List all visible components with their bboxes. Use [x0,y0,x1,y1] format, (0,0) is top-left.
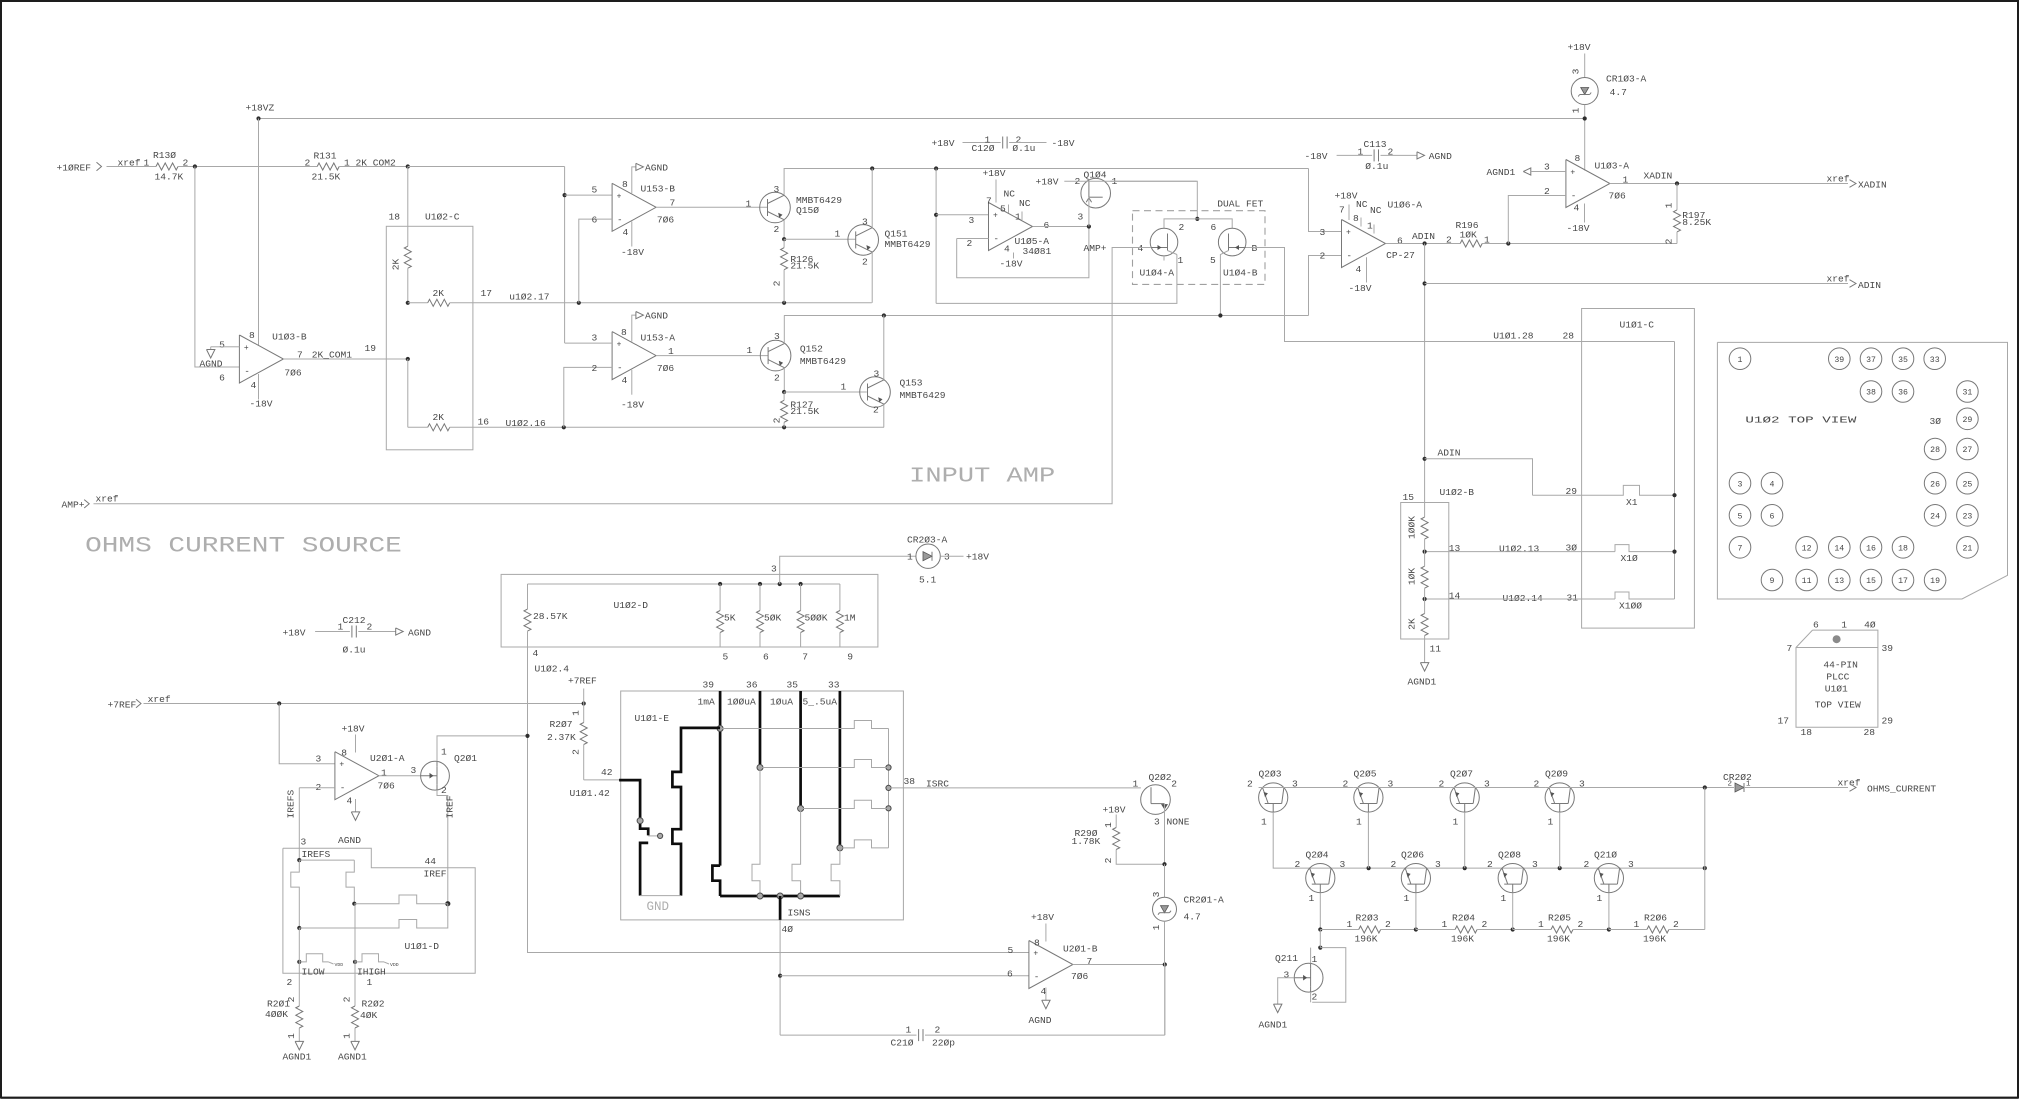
resistor R201 400K [265,973,303,1041]
svg-text:5: 5 [1000,204,1006,215]
svg-text:U1Ø6-A: U1Ø6-A [1388,200,1423,211]
svg-text:AGND: AGND [338,835,361,846]
wire R207 to U101-E pin 42 [570,767,621,799]
svg-text:U1Ø1-C: U1Ø1-C [1620,320,1655,331]
node u102.17 / U153-B pin6 [577,301,581,305]
svg-text:X1ØØ: X1ØØ [1619,601,1642,612]
wire bold 1mA rail [719,691,722,866]
svg-text:4: 4 [1574,203,1580,214]
svg-text:U1Ø1.42: U1Ø1.42 [570,788,611,799]
svg-text:ADIN: ADIN [1438,447,1461,458]
svg-text:9: 9 [847,651,853,662]
svg-text:MMBT6429: MMBT6429 [885,239,931,250]
wire collector vertical right [888,729,890,848]
svg-text:1: 1 [1404,893,1410,904]
op-amp U106-A CP-27 [1320,199,1423,275]
svg-text:1: 1 [1367,221,1373,232]
node bus 500K tap [799,582,803,586]
wire 100uA lower with notch [752,768,760,897]
svg-text:IREFS: IREFS [302,849,331,860]
svg-text:xref: xref [1827,173,1850,184]
wire U153-B output to Q150 base [656,199,768,210]
svg-text:11: 11 [1802,577,1812,586]
diode CR201-A 4.7 zener [1151,864,1224,964]
svg-text:6: 6 [1044,220,1050,231]
svg-text:CR1Ø3-A: CR1Ø3-A [1606,74,1647,85]
node IREF entry [445,901,450,906]
svg-text:3: 3 [1628,859,1634,870]
svg-text:3: 3 [1284,970,1290,981]
node IREFS inside U101-D [297,858,301,862]
svg-text:7: 7 [1738,545,1743,554]
svg-text:1M: 1M [844,613,856,624]
svg-text:4: 4 [623,227,629,238]
svg-text:8: 8 [621,327,627,338]
wire U201-B output [1073,964,1165,966]
wire node down to U103-B pin 6 [195,167,240,368]
svg-text:1: 1 [1664,202,1675,208]
wire CR202 to OHMS_CURRENT connector [1745,787,1848,789]
svg-text:U1Ø2.14: U1Ø2.14 [1503,593,1544,604]
node 100uA row [757,765,763,771]
wire 1mA row to bump cell [720,721,888,729]
resistor R126 21.5K [772,239,820,303]
resistor network U102-B box [1401,487,1475,639]
svg-text:196K: 196K [1355,933,1378,944]
wire Q201 source IREF down [437,790,456,904]
svg-text:2: 2 [367,622,373,633]
svg-text:2: 2 [1584,859,1590,870]
node R196 / U103-A feedback [1506,241,1510,245]
resistor 2K in U102-B [1407,599,1429,663]
svg-text:U153-A: U153-A [641,333,676,344]
svg-text:+18V: +18V [1568,42,1591,53]
transistor Q208 [1487,850,1538,905]
svg-text:1mA: 1mA [698,697,716,708]
svg-text:1: 1 [1538,919,1544,930]
node Q209 base junction [1558,866,1562,870]
node row2 right [1703,866,1707,870]
resistor 28.57K [524,584,568,647]
svg-text:1: 1 [906,1025,912,1036]
wire rail down to U105-A pin 3 and U104-A return [935,169,937,304]
svg-text:3: 3 [1151,891,1162,897]
wire U103-B pin 5 stub [227,346,240,348]
svg-text:4ØK: 4ØK [360,1010,378,1021]
svg-text:+18V: +18V [983,168,1006,179]
svg-text:2: 2 [1482,919,1488,930]
svg-text:5: 5 [1008,945,1014,956]
svg-text:28: 28 [1930,446,1940,455]
wire bold ISNS drop [779,896,782,920]
svg-text:Q151: Q151 [885,229,908,240]
node XADIN / R197 [1675,181,1679,185]
svg-text:2: 2 [1320,251,1326,262]
transistor Q201 JFET [421,747,478,797]
svg-text:1: 1 [907,552,913,563]
svg-text:3: 3 [1532,859,1538,870]
svg-text:1: 1 [381,768,387,779]
wire 2K to pin17 node [407,268,409,303]
resistor 100K in U102-B [1407,516,1429,552]
svg-text:NC: NC [1370,205,1382,216]
svg-text:MMBT6429: MMBT6429 [900,390,946,401]
node 2K_COM1 [406,357,410,361]
svg-text:XADIN: XADIN [1644,171,1673,182]
svg-text:2: 2 [1247,779,1253,790]
wire 10uA lower with notch [792,809,801,897]
wire Q208 base to R row [1512,893,1514,930]
svg-text:TOP VIEW: TOP VIEW [1815,700,1861,711]
node U104-B drain [1218,313,1222,317]
net IREFS vertical [286,788,300,860]
node R207 top [582,701,586,705]
label +7REF at R207 [568,676,597,704]
node Q152 emitter / Q153 base / R127 [782,390,786,394]
svg-text:7Ø6: 7Ø6 [1071,971,1089,982]
svg-text:7Ø6: 7Ø6 [378,781,396,792]
svg-text:11: 11 [1430,644,1442,655]
node U102-C pin 17 tap [406,301,410,305]
svg-text:7Ø6: 7Ø6 [657,215,675,226]
node Q207 base junction [1463,866,1467,870]
wire Q207 to Q209 [1450,787,1545,789]
svg-text:4: 4 [533,648,539,659]
svg-text:+1ØREF: +1ØREF [57,162,92,173]
svg-text:2K: 2K [391,259,402,271]
svg-text:XADIN: XADIN [1858,179,1887,190]
svg-text:1: 1 [1309,893,1315,904]
svg-text:+: + [1033,950,1038,959]
wire Q153 emitter to u102.16 [883,404,885,427]
op-amp U153-B [612,179,675,238]
svg-text:2K: 2K [1407,618,1418,630]
svg-text:NC: NC [1356,199,1368,210]
transistor Q152 MMBT6429 [760,331,846,384]
node OHMS row right [1703,785,1707,789]
op-amp U103-B [219,330,376,391]
connector +10REF [57,158,141,174]
svg-text:DUAL FET: DUAL FET [1217,199,1263,210]
svg-text:2: 2 [1728,781,1733,789]
svg-text:AMP+: AMP+ [1083,243,1106,254]
node 10uA bottom [798,893,804,899]
svg-text:28.57K: 28.57K [533,611,568,622]
svg-text:1ØØuA: 1ØØuA [727,697,756,708]
svg-text:Q15Ø: Q15Ø [796,205,819,216]
wire Q151 collector [871,169,873,228]
wire U153-A output to Q152 base [656,345,768,356]
svg-text:AGND: AGND [200,359,223,370]
wire bold 1mA cell left [672,728,720,896]
resistor R127 21.5K [772,392,820,427]
svg-text:1: 1 [1571,107,1582,113]
transistor Q203 [1247,769,1298,828]
svg-text:U153-B: U153-B [641,184,676,195]
resistor 5K [717,584,736,647]
svg-text:1: 1 [1484,235,1490,246]
xref OHMS_CURRENT connector [1838,777,1937,794]
wire U201-B pin 6 row [780,969,1029,980]
svg-text:2: 2 [935,1025,941,1036]
svg-text:+18V: +18V [342,724,365,735]
wire U102.4 long vertical to U201-B pin5 [528,647,1029,953]
svg-text:4: 4 [1356,264,1362,275]
svg-text:4: 4 [251,380,257,391]
connector U102 TOP VIEW outline [1717,342,2007,599]
svg-text:Q2Ø4: Q2Ø4 [1306,850,1329,861]
svg-text:U1Ø4-A: U1Ø4-A [1140,268,1175,279]
transistor Q204 [1295,850,1346,905]
svg-text:3: 3 [874,369,880,380]
svg-text:2: 2 [774,373,780,384]
wire XADIN output [1610,183,1848,185]
svg-text:5.1: 5.1 [919,575,937,586]
svg-text:1ØØK: 1ØØK [1407,516,1418,539]
node Q151 collector on rail [870,166,874,170]
svg-text:2: 2 [592,363,598,374]
connector U102 pins row 5 6 24 23 [1729,505,1978,527]
diode CR103-A 4.7 zener [1568,42,1647,119]
svg-text:Q2Ø3: Q2Ø3 [1259,769,1282,780]
wire U153-A pin 8 to AGND flag [632,315,636,342]
svg-text:2: 2 [441,785,447,796]
wire Q205 to Q207 [1354,787,1450,789]
wire U103-B output 2K_COM1 [283,358,407,360]
svg-text:ADIN: ADIN [1412,231,1435,242]
wire U201-A output to Q201 [379,765,421,776]
svg-text:3: 3 [301,837,307,848]
svg-text:2K: 2K [433,412,445,423]
svg-text:1: 1 [1133,779,1139,790]
svg-text:+: + [1346,229,1351,238]
svg-text:1: 1 [286,1033,297,1039]
svg-text:U1Ø3-B: U1Ø3-B [272,332,307,343]
ground AGND1 below U102-B [1408,644,1442,688]
wire U101.28 inside U101-C [1674,342,1676,600]
svg-text:AGND1: AGND1 [1259,1020,1288,1031]
node U105-A pin 3 [934,213,938,217]
wire Q152 emitter to Q153 base [783,368,785,392]
resistor 10K in U102-B [1407,552,1429,599]
svg-text:2: 2 [873,404,879,415]
svg-text:4: 4 [1138,243,1144,254]
svg-text:14: 14 [1449,590,1461,601]
svg-text:AGND: AGND [408,628,431,639]
svg-text:X1Ø: X1Ø [1621,553,1639,564]
ground AGND at U103-B pin 5 [200,347,227,370]
resistor R131 21.5K [305,151,397,183]
svg-text:3: 3 [862,217,868,228]
svg-text:25: 25 [1962,480,1972,489]
wire U153-B pin 4 to -18V [621,222,644,259]
resistor 50K [757,584,782,647]
wire +18V down to U103-A pin 8 [1584,119,1586,171]
wire Q150 emitter to Q151 base [783,220,785,240]
svg-text:3: 3 [1571,68,1582,74]
wire bold 100uA drop [759,691,762,768]
wire Q204 base to R row [1319,893,1321,930]
node ISNS junction [777,893,783,899]
svg-text:+18V: +18V [1335,191,1358,202]
svg-text:1: 1 [1597,893,1603,904]
op-amp U201-A [316,748,405,807]
svg-text:1: 1 [835,229,841,240]
node ISNS pin6 tap [778,974,782,978]
svg-text:1: 1 [1738,356,1743,365]
op-amp U201-B [1029,938,1098,998]
svg-text:3: 3 [969,215,975,226]
transistor Q151 MMBT6429 [848,217,931,268]
wire Q151 emitter to u102.17 [871,252,873,303]
node ADIN junction [1423,241,1427,245]
node 5uA row [837,845,843,851]
svg-text:5_.5uA: 5_.5uA [803,697,838,708]
svg-text:7: 7 [1087,956,1093,967]
svg-text:Q153: Q153 [900,377,923,388]
svg-text:6: 6 [592,215,598,226]
svg-text:1: 1 [1356,817,1362,828]
wire right branch with notch [346,860,354,904]
svg-text:AGND: AGND [645,162,668,173]
svg-text:xref: xref [1838,777,1861,788]
wire ISNS to U201-B pin 6 [779,920,781,1035]
svg-text:5ØØK: 5ØØK [805,613,828,624]
wire +7REF to R207 [144,703,584,705]
svg-text:12: 12 [1802,545,1812,554]
switch IHIGH [355,954,399,978]
switch X10 [1566,543,1675,565]
svg-text:6: 6 [763,651,769,662]
svg-text:R2Ø6: R2Ø6 [1644,912,1667,923]
wire U153-B pin 8 to AGND flag [632,167,636,193]
node dual fet gate junction [1195,217,1199,221]
svg-text:3: 3 [1078,212,1084,223]
xref ADIN connector [1827,273,1882,291]
wire Q104 drain to dual fet gates [1110,181,1197,219]
svg-text:1: 1 [144,158,150,169]
node ADIN xref tap [1423,281,1427,285]
labels U102-D pins 5 6 7 9 [723,651,854,662]
svg-text:Ø.1u: Ø.1u [1012,143,1035,154]
node Q205 base junction [1367,866,1371,870]
svg-text:2: 2 [1391,859,1397,870]
svg-text:Q2Ø1: Q2Ø1 [454,753,477,764]
switch box U101-D [283,848,475,973]
switch ILOW [299,954,343,978]
svg-text:196K: 196K [1547,933,1570,944]
capacitor C113 0.1u [1305,139,1453,172]
wire bold 1mA notch to bottom [712,866,720,896]
wire to U105-A pin 3 [936,215,988,226]
node bus 5K tap [718,582,722,586]
svg-text:ISRC: ISRC [926,779,949,790]
wire Q152/Q153 collector tie line [784,315,1308,317]
wire Q204 base below to Q211 loop [1319,930,1321,948]
svg-text:3: 3 [944,552,950,563]
node Q153 collector [882,313,886,317]
wire gray gate link [648,835,660,837]
svg-text:Ø.1u: Ø.1u [1365,161,1388,172]
node R203/Q206 base [1414,927,1418,931]
node gate link [658,833,663,838]
svg-text:27: 27 [1962,446,1972,455]
wire U106-A pin 7 +18V [1335,191,1358,221]
svg-text:+7REF: +7REF [568,676,597,687]
wire U105-A NC stubs [1008,205,1010,214]
svg-text:7: 7 [986,196,992,207]
svg-text:U1Ø2.16: U1Ø2.16 [506,418,547,429]
wire R131 to 2K_COM2 node [339,166,408,168]
svg-text:2: 2 [772,417,783,423]
xref XADIN connector [1827,173,1887,190]
node R205/Q210 base [1607,927,1611,931]
svg-text:+: + [339,761,344,770]
resistor 500K [797,584,828,647]
svg-text:+18V: +18V [1103,805,1126,816]
wire lower row with bump [299,904,448,928]
svg-text:OHMS_CURRENT: OHMS_CURRENT [1867,783,1936,794]
wire Q211 drain up [1310,948,1312,964]
svg-text:2.37K: 2.37K [547,732,576,743]
wire ISRC out [889,776,1141,790]
svg-text:R2Ø3: R2Ø3 [1356,912,1379,923]
svg-text:3: 3 [316,753,322,764]
svg-text:AGND: AGND [645,311,668,322]
svg-text:196K: 196K [1643,933,1666,944]
svg-text:-18V: -18V [250,399,273,410]
connector U102 pins 28 27 [1924,438,1978,460]
wire +18V to Q104 gate [1036,177,1197,188]
wire bold 10uA drop [799,691,802,809]
svg-text:42: 42 [601,767,613,778]
package U101 labels [1778,620,1894,739]
svg-text:3: 3 [774,331,780,342]
svg-text:1: 1 [367,977,373,988]
svg-text:7Ø6: 7Ø6 [1609,191,1627,202]
svg-text:15: 15 [1403,492,1415,503]
power rail +18VZ [246,103,1585,119]
svg-text:C12Ø: C12Ø [972,143,995,154]
node X1 junction [1672,493,1676,497]
svg-text:2: 2 [1487,859,1493,870]
ground AGND1 below R202 [338,1041,367,1062]
package 44-PIN PLCC U101 outline [1796,630,1878,727]
svg-text:38: 38 [1866,389,1876,398]
svg-text:NC: NC [1004,189,1016,200]
svg-text:39: 39 [1882,643,1894,654]
svg-text:18: 18 [1801,727,1813,738]
node right rail 808 [886,806,891,811]
capacitor C120 0.1u [932,135,1075,155]
svg-text:U1Ø4-B: U1Ø4-B [1223,268,1258,279]
svg-text:6: 6 [1770,513,1775,522]
svg-text:-18V: -18V [1567,223,1590,234]
wire Q206 base to R row [1415,893,1417,930]
svg-text:2: 2 [571,749,582,755]
svg-text:1: 1 [1634,919,1640,930]
transistor Q153 MMBT6429 [860,369,946,416]
wire right vertical [1704,788,1706,930]
svg-text:29: 29 [1882,716,1894,727]
svg-text:IREF: IREF [445,795,456,818]
svg-text:1ØK: 1ØK [1460,230,1478,241]
svg-text:35: 35 [1898,356,1908,365]
svg-text:1: 1 [342,1033,353,1039]
wire Q210 base to R row [1608,893,1610,930]
svg-text:Q2Ø2: Q2Ø2 [1149,772,1172,783]
switch X1 [1533,485,1675,507]
